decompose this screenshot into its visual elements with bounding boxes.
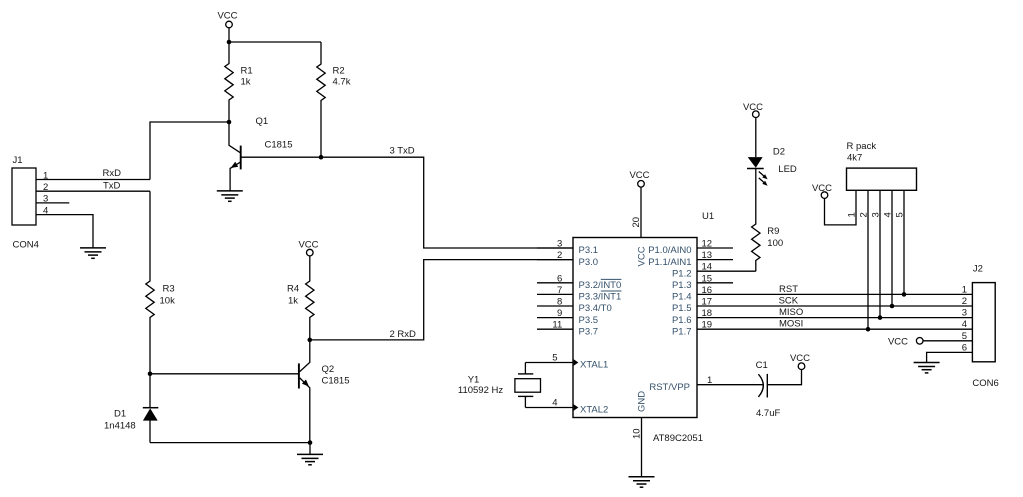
svg-text:1k: 1k (241, 77, 251, 88)
svg-text:VCC: VCC (637, 246, 648, 266)
capacitor C1 4.7uF (756, 360, 802, 419)
wire bottom rail (D1 to Q2 emitter) (150, 442, 310, 444)
svg-text:17: 17 (702, 297, 713, 308)
net wire MISO (733, 317, 972, 319)
power VCC at R pack (812, 183, 832, 199)
U1 pin 20 VCC (top) (631, 187, 648, 266)
J1 pin 4 wire to ground (36, 205, 93, 248)
power VCC at C1 (790, 353, 810, 370)
crystal Y1 110592 Hz (458, 363, 541, 408)
svg-text:VCC: VCC (629, 170, 649, 181)
svg-text:1n4148: 1n4148 (104, 421, 136, 432)
svg-text:1k: 1k (288, 296, 298, 307)
svg-text:4k7: 4k7 (847, 153, 862, 164)
svg-text:P1.0/AIN0: P1.0/AIN0 (648, 245, 691, 256)
svg-text:R3: R3 (163, 284, 175, 295)
U1 pin 9 P3.5 (537, 308, 598, 326)
resistor R4 1k (287, 256, 314, 340)
svg-text:P1.7: P1.7 (672, 326, 692, 337)
svg-text:20: 20 (631, 217, 642, 228)
svg-text:5: 5 (552, 353, 557, 364)
wire VCC rail to R2 (229, 41, 321, 43)
R pack pin 2 (859, 190, 870, 329)
svg-text:Q2: Q2 (322, 364, 335, 375)
svg-text:C1815: C1815 (322, 376, 350, 387)
power VCC above D2 (743, 102, 763, 117)
svg-text:LED: LED (778, 164, 797, 175)
svg-text:VCC: VCC (790, 353, 810, 364)
svg-text:4: 4 (43, 205, 48, 216)
U1 pin 14 P1.2 (672, 262, 756, 280)
svg-text:4.7k: 4.7k (333, 77, 351, 88)
svg-text:P3.0: P3.0 (579, 257, 599, 268)
svg-text:P3.7: P3.7 (579, 326, 599, 337)
transistor Q2 C1815 (299, 340, 350, 443)
svg-text:P3.4/T0: P3.4/T0 (579, 303, 612, 314)
U1 pin 19 P1.7 (672, 320, 733, 338)
ground below Q2 (309, 443, 311, 455)
svg-text:XTAL1: XTAL1 (580, 360, 608, 371)
svg-text:11: 11 (552, 320, 562, 331)
U1 pin 3 P3.1 (537, 239, 598, 257)
svg-text:7: 7 (557, 285, 562, 296)
U1 pin 16 P1.4 (672, 285, 733, 303)
wire TxD net to U1 pin 3 (321, 157, 573, 248)
svg-text:9: 9 (557, 308, 562, 319)
resistor R9 100 (752, 169, 784, 272)
svg-text:P3.1: P3.1 (579, 245, 599, 256)
svg-text:4: 4 (883, 212, 894, 217)
svg-text:3: 3 (871, 212, 882, 217)
svg-text:100: 100 (767, 238, 783, 249)
svg-text:2: 2 (43, 182, 48, 193)
U1 pin 11 P3.7 (537, 320, 598, 338)
svg-text:10k: 10k (160, 296, 176, 307)
transistor Q1 C1815 (229, 116, 321, 191)
svg-text:P3.3/INT1: P3.3/INT1 (579, 292, 622, 303)
svg-text:R1: R1 (241, 66, 253, 77)
wire base node to J1 pin 1 (RxD) (150, 122, 229, 180)
junction R pack pin 4 / SCK (890, 304, 895, 309)
LED D2 (747, 147, 797, 186)
junction R pack pin 3 / MISO (878, 315, 883, 320)
ground below J1 pin 4 (80, 248, 106, 258)
power VCC (top rail) (217, 11, 237, 28)
U1 pin 2 P3.0 (537, 250, 598, 268)
svg-text:P1.5: P1.5 (672, 303, 692, 314)
svg-text:AT89C2051: AT89C2051 (653, 433, 703, 444)
svg-text:19: 19 (702, 320, 713, 331)
svg-text:C1: C1 (756, 360, 768, 371)
U1 pin 17 P1.5 (672, 297, 733, 315)
svg-text:3: 3 (43, 194, 48, 205)
ground below Q1 emitter (217, 191, 243, 201)
svg-text:P1.3: P1.3 (672, 280, 692, 291)
svg-text:12: 12 (702, 239, 713, 250)
J1 pin 3 stub (36, 194, 69, 205)
svg-text:P1.2: P1.2 (672, 268, 692, 279)
svg-text:Y1: Y1 (468, 375, 480, 386)
U1 pin 7 P3.3/INT1 (537, 285, 621, 303)
svg-text:U1: U1 (702, 211, 714, 222)
U1 pin 18 P1.6 (672, 308, 733, 326)
power VCC at J2 pin 5 (888, 331, 972, 348)
U1 pin 12 P1.0/AIN0 (648, 239, 733, 257)
svg-text:5: 5 (895, 212, 906, 217)
U1 pin 6 P3.2/INT0 (537, 273, 621, 291)
svg-text:110592 Hz: 110592 Hz (458, 385, 503, 396)
svg-text:6: 6 (557, 273, 562, 284)
svg-text:18: 18 (702, 308, 713, 319)
svg-text:R9: R9 (767, 226, 779, 237)
junction R pack pin 2 / MOSI (866, 327, 871, 332)
R pack pin 3 (871, 190, 882, 317)
svg-text:8: 8 (557, 297, 562, 308)
svg-text:4: 4 (552, 398, 557, 409)
junction R2 / Q1 collector (319, 155, 324, 160)
svg-text:2 RxD: 2 RxD (390, 329, 417, 340)
svg-text:14: 14 (702, 262, 713, 273)
U1 pin 1 RST/VPP (649, 375, 763, 393)
svg-text:16: 16 (702, 285, 713, 296)
U1 pin 10 GND (bottom) (632, 391, 648, 477)
diode D1 1n4148 (104, 374, 158, 443)
svg-text:6: 6 (962, 342, 967, 353)
svg-text:C1815: C1815 (265, 139, 293, 150)
svg-text:3 TxD: 3 TxD (390, 145, 415, 156)
svg-text:MISO: MISO (779, 307, 803, 318)
svg-text:4: 4 (962, 319, 967, 330)
connector J1 body (12, 168, 36, 225)
net wire RST (733, 293, 972, 295)
net wire MOSI (733, 328, 972, 330)
resistor R2 4.7k (317, 42, 351, 157)
junction R4 / Q2 collector / RxD net (308, 338, 313, 343)
svg-text:D2: D2 (773, 147, 785, 158)
svg-text:MOSI: MOSI (779, 319, 803, 330)
svg-text:J2: J2 (973, 264, 983, 275)
svg-text:1: 1 (707, 375, 712, 386)
resistor R3 10k (146, 191, 175, 374)
net wire SCK (733, 305, 972, 307)
svg-text:P1.6: P1.6 (672, 315, 692, 326)
IC U1 AT89C2051 body (573, 238, 697, 418)
connector J2 body (972, 283, 995, 362)
svg-text:1: 1 (847, 212, 858, 217)
svg-text:XTAL2: XTAL2 (580, 405, 608, 416)
svg-text:R4: R4 (287, 284, 299, 295)
svg-text:VCC: VCC (888, 336, 908, 347)
svg-text:CON4: CON4 (13, 240, 39, 251)
svg-text:2: 2 (557, 250, 562, 261)
ground below J2 pin 6 (914, 363, 940, 373)
svg-text:13: 13 (702, 250, 713, 261)
svg-text:RST: RST (779, 284, 798, 295)
svg-text:SCK: SCK (779, 295, 799, 306)
svg-text:2: 2 (859, 212, 870, 217)
svg-text:1: 1 (43, 170, 48, 181)
svg-text:1: 1 (962, 284, 967, 295)
svg-text:4.7uF: 4.7uF (756, 408, 780, 419)
U1 pin 15 P1.3 (672, 273, 733, 291)
svg-text:R2: R2 (333, 66, 345, 77)
svg-text:CON6: CON6 (972, 378, 998, 389)
junction R1 / Q1 base node (227, 120, 232, 125)
junction R pack pin 5 / RST (902, 292, 907, 297)
U1 pin 8 P3.4/T0 (537, 297, 612, 315)
wire Q2 base (150, 373, 299, 375)
svg-text:P1.1/AIN1: P1.1/AIN1 (648, 257, 691, 268)
svg-text:TxD: TxD (103, 180, 121, 191)
svg-text:VCC: VCC (217, 11, 237, 22)
U1 pin 5 XTAL1 (525, 353, 608, 371)
R pack pin 5 (895, 190, 906, 294)
svg-text:J1: J1 (13, 155, 23, 166)
svg-text:3: 3 (962, 308, 967, 319)
power VCC above R4 (298, 240, 318, 256)
wire RxD net to U1 pin 2 (310, 260, 573, 340)
resistor network R pack 4k7 (847, 168, 917, 190)
svg-text:P1.4: P1.4 (672, 292, 692, 303)
svg-text:15: 15 (702, 273, 713, 284)
svg-text:Q1: Q1 (256, 116, 269, 127)
junction Q2 emitter / bottom rail / ground (308, 440, 313, 445)
svg-text:3: 3 (557, 239, 562, 250)
svg-text:2: 2 (962, 296, 967, 307)
J1 pin 2 (TxD) (36, 182, 150, 193)
resistor R1 1k (225, 42, 253, 122)
power VCC above U1 (629, 170, 649, 187)
junction R3 / D1 / Q2 base (148, 372, 153, 377)
svg-text:RST/VPP: RST/VPP (649, 382, 690, 393)
svg-text:RxD: RxD (103, 168, 122, 179)
svg-text:R pack: R pack (847, 141, 877, 152)
J1 pin 1 (RxD) (36, 170, 150, 181)
U1 pin 13 P1.1/AIN1 (648, 250, 733, 268)
J2 pin 6 wire to ground (927, 342, 973, 362)
R pack pin 4 (883, 190, 894, 306)
svg-text:P3.2/INT0: P3.2/INT0 (579, 280, 622, 291)
U1 pin 4 XTAL2 (525, 398, 608, 416)
svg-text:D1: D1 (114, 409, 126, 420)
svg-text:GND: GND (637, 391, 648, 412)
svg-text:10: 10 (632, 428, 643, 439)
R pack pin 1 (825, 190, 858, 225)
junction VCC rail / R1 / R2 (227, 40, 232, 45)
svg-text:P3.5: P3.5 (579, 315, 599, 326)
svg-text:5: 5 (962, 331, 967, 342)
ground below U1 (629, 477, 655, 487)
